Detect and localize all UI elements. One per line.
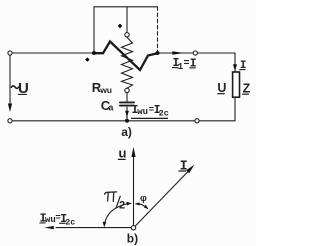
- svg-text:b): b): [127, 232, 138, 246]
- svg-text:2: 2: [119, 200, 126, 212]
- svg-text:a): a): [121, 125, 132, 139]
- svg-text:I: I: [180, 160, 188, 175]
- svg-text:u: u: [119, 146, 127, 161]
- svg-text:wu: wu: [45, 215, 56, 225]
- svg-text:2c: 2c: [65, 217, 75, 227]
- svg-text:=: =: [184, 59, 190, 70]
- svg-text:φ: φ: [140, 193, 147, 204]
- svg-text:wu: wu: [99, 85, 112, 95]
- svg-text:U: U: [217, 81, 226, 95]
- svg-text:2c: 2c: [159, 108, 169, 118]
- svg-text:Z: Z: [243, 81, 251, 95]
- svg-text:I: I: [240, 60, 247, 72]
- svg-text:wu: wu: [137, 107, 148, 117]
